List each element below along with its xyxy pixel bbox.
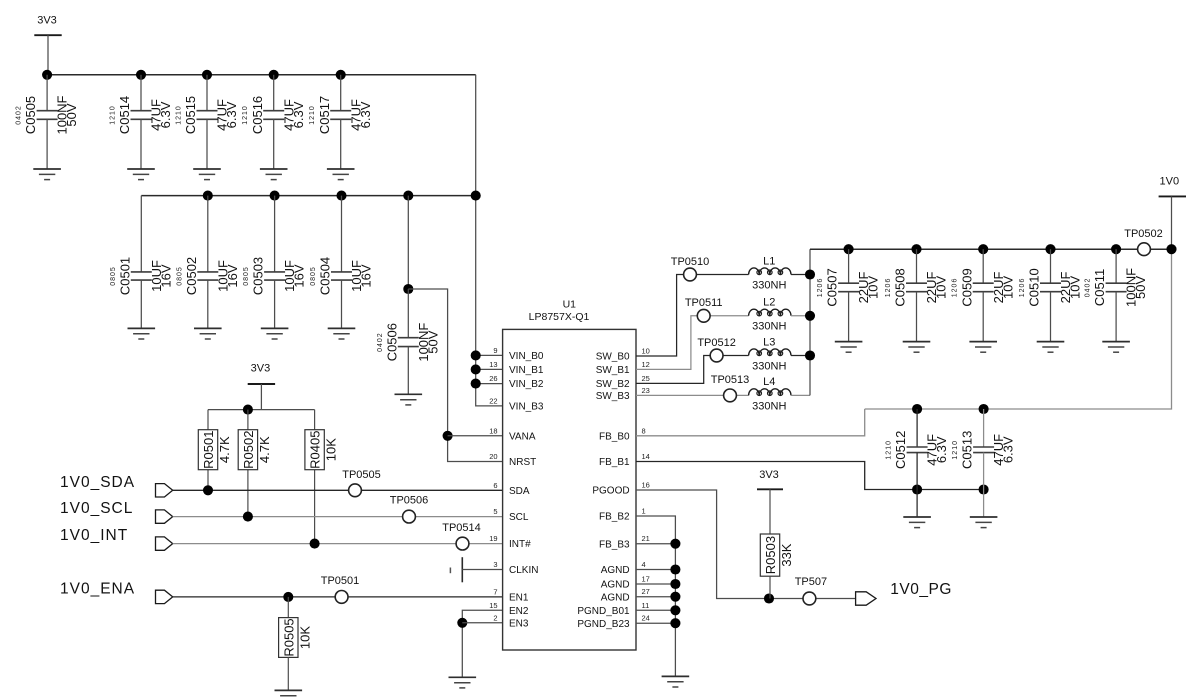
node junction VIN trunk [471,379,481,389]
wire resistor top rail [208,409,315,411]
capacitor C0501 10UF 16V [140,196,142,272]
wire inductor to output bus [791,315,810,317]
svg-text:U1: U1 [563,299,577,311]
node junction R0502 top [243,405,253,415]
svg-text:1210: 1210 [886,440,893,460]
node junction on rail 2 [203,191,213,201]
svg-text:6.3V: 6.3V [224,101,239,128]
svg-text:1V0_SCL: 1V0_SCL [60,500,133,517]
svg-text:4: 4 [642,560,646,569]
test point TP0505 [349,484,362,497]
wire C0513 ground lead [983,490,985,518]
wire SW_B1 net [636,316,749,370]
capacitor C0517 47UF 6.3V [340,75,342,111]
svg-text:16: 16 [642,481,650,490]
svg-text:INT#: INT# [509,539,531,550]
svg-text:4.7K: 4.7K [217,436,232,463]
wire 3V3 stem to resistor rail [260,384,262,410]
svg-text:5: 5 [493,507,497,516]
capacitor C0504 10UF 16V [341,196,343,272]
wire 1V0_INT [173,543,503,545]
wire SW_B3 net [636,394,749,396]
node junction on 3V3 rail [269,70,279,80]
wire EN3 stub [462,622,502,624]
svg-text:TP0511: TP0511 [685,297,723,309]
ground [128,327,156,329]
svg-text:TP0514: TP0514 [442,522,481,534]
node junction AGND/PGND bus [670,592,680,602]
capacitor C0502 10UF 16V [207,196,209,272]
node junction R0405/INT [310,539,320,549]
svg-text:1206: 1206 [952,278,959,298]
wire to VANA/NRST [408,289,502,462]
capacitor C0508 22UF 10V [916,249,918,283]
svg-text:26: 26 [489,374,497,383]
ground [969,341,997,343]
svg-text:1V0_INT: 1V0_INT [60,527,128,544]
svg-text:3V3: 3V3 [251,363,271,375]
wire rail 2 (VIN mid) [141,195,475,197]
svg-text:6.3V: 6.3V [1001,436,1016,463]
ground [33,168,61,170]
svg-text:8: 8 [642,426,646,435]
test point TP0513 [724,389,737,402]
svg-text:PGND_B01: PGND_B01 [577,606,630,617]
svg-text:10V: 10V [866,276,881,299]
wire FB_B1 net [636,462,984,490]
svg-text:12: 12 [642,360,650,369]
wire 1V0_ENA [173,596,503,598]
ground [260,168,288,170]
node junction AGND/PGND bus [670,539,680,549]
svg-text:VANA: VANA [509,431,536,442]
node junction on rail 2 [336,191,346,201]
node junction AGND/PGND bus [670,605,680,615]
wire VIN stub [476,383,503,385]
power symbol 3V3 [757,488,783,490]
svg-text:C0501: C0501 [117,257,132,295]
svg-text:AGND: AGND [601,565,630,576]
svg-text:11: 11 [642,601,650,610]
capacitor C0503 10UF 16V [274,196,276,272]
svg-text:L1: L1 [763,255,775,267]
CLKIN tie-off symbol [461,557,463,582]
svg-text:330NH: 330NH [752,360,786,372]
svg-text:4.7K: 4.7K [257,436,272,463]
wire trunk rail1 to VIN pins [476,75,503,406]
svg-text:33K: 33K [779,543,794,566]
wire R0503 top lead [769,489,771,534]
resistor R0405 10K [314,428,316,431]
svg-text:1: 1 [642,507,646,516]
svg-text:10V: 10V [1000,276,1015,299]
ground [1102,341,1130,343]
svg-text:L2: L2 [763,297,775,309]
wire inductor to output bus [791,394,810,396]
svg-text:C0503: C0503 [251,257,266,295]
svg-text:LP8757X-Q1: LP8757X-Q1 [529,311,590,323]
IC U1 LP8757X-Q1 [503,329,636,650]
node junction R0501/SDA [203,485,213,495]
node junction FB top rail [912,404,922,414]
input flag 1V0_SCL [156,510,173,523]
resistor R0505 10K [287,616,289,619]
wire R0505 bottom lead [287,657,289,690]
node junction VIN trunk [471,350,481,360]
node junction VANA [443,431,453,441]
capacitor C0506 100NF 50V [407,289,409,338]
inductor L4 330NH [749,389,791,396]
svg-text:PGOOD: PGOOD [592,486,629,497]
resistor R0502 4.7K [247,428,249,431]
test point TP0502 [1138,243,1151,256]
capacitor C0511 100NF 50V [1115,249,1117,283]
svg-text:C0509: C0509 [959,268,974,306]
node junction inductor/bus [805,350,815,360]
svg-text:VIN_B1: VIN_B1 [509,365,544,376]
inductor L2 330NH [749,309,791,316]
svg-text:R0505: R0505 [281,618,296,656]
ground [327,168,355,170]
svg-text:21: 21 [642,534,650,543]
svg-text:VIN_B0: VIN_B0 [509,351,544,362]
svg-text:SW_B1: SW_B1 [596,365,630,376]
node junction on rail 2 [270,191,280,201]
svg-text:0402: 0402 [16,105,23,125]
wire input rail VIN (top) [47,74,476,76]
svg-text:C0510: C0510 [1027,268,1042,306]
svg-text:14: 14 [642,452,650,461]
ground [449,676,477,678]
svg-text:TP507: TP507 [795,576,827,588]
svg-text:16V: 16V [225,264,240,287]
resistor R0503 33K [769,533,771,536]
svg-text:CLKIN: CLKIN [509,565,538,576]
svg-text:C0517: C0517 [317,96,332,134]
node junction C0506/VANA [403,284,413,294]
input flag 1V0_ENA [156,590,173,603]
ground [194,327,222,329]
svg-text:0805: 0805 [310,266,317,286]
svg-text:1210: 1210 [109,105,116,125]
svg-text:10K: 10K [324,438,339,461]
svg-text:1210: 1210 [242,105,249,125]
svg-text:50V: 50V [425,330,440,353]
wire 1V0_SCL [173,516,503,518]
node junction on rail 2 [403,191,413,201]
node junction on output rail [1166,244,1176,254]
node junction R0502/SCL [243,512,253,522]
wire VIN stub [476,368,503,370]
wire R0502 leads [247,410,249,430]
node junction on 3V3 rail [202,70,212,80]
ground [193,168,221,170]
wire AGND/PGND stub [636,596,675,598]
svg-text:R0502: R0502 [241,431,256,469]
svg-text:EN2: EN2 [509,606,529,617]
svg-text:C0502: C0502 [184,257,199,295]
node junction AGND/PGND bus [670,618,680,628]
svg-text:1V0: 1V0 [1160,176,1180,188]
svg-text:TP0501: TP0501 [321,575,360,587]
svg-text:1210: 1210 [175,105,182,125]
ground [395,393,423,395]
wire inductor to output bus [791,355,810,357]
svg-text:PGND_B23: PGND_B23 [577,619,630,630]
node junction on output rail [844,244,854,254]
test point TP0501 [335,591,348,604]
svg-text:TP0513: TP0513 [711,374,750,386]
svg-text:L3: L3 [763,336,775,348]
wire 3V3 to rail [47,35,49,75]
wire SW_B2 net [636,356,749,384]
svg-text:C0512: C0512 [893,431,908,469]
ground [275,689,303,691]
wire inductor to output bus [791,274,810,276]
node junction FB bottom rail [912,484,922,494]
capacitor C0514 47UF 6.3V [140,75,142,111]
test point TP0512 [710,349,723,362]
wire EN2/EN3 tie [462,610,502,677]
ground [903,341,931,343]
node junction EN3 [457,618,467,628]
power symbol 1V0 [1159,195,1186,197]
inductor L1 330NH [749,268,791,275]
svg-text:1210: 1210 [309,105,316,125]
svg-text:16V: 16V [359,264,374,287]
capacitor C0512 47UF 6.3V [916,409,918,447]
svg-text:EN1: EN1 [509,593,529,604]
svg-text:3: 3 [493,560,497,569]
svg-text:2: 2 [493,613,497,622]
svg-text:3V3: 3V3 [37,15,57,27]
wire R0501 leads [207,410,209,430]
ground [1037,341,1065,343]
wire AGND/PGND stub [636,609,675,611]
svg-text:1206: 1206 [885,278,892,298]
node junction FB bottom rail [979,484,989,494]
svg-text:R0405: R0405 [308,431,323,469]
capacitor C0509 22UF 10V [982,249,984,283]
svg-text:18: 18 [489,426,497,435]
ground [127,168,155,170]
capacitor C0507 22UF 10V [848,249,850,283]
svg-text:6.3V: 6.3V [158,101,173,128]
svg-text:AGND: AGND [601,592,630,603]
svg-text:0805: 0805 [243,266,250,286]
wire PGOOD net [636,490,856,599]
wire AGND/PGND stub [636,569,675,571]
wire output rail [810,248,1172,250]
svg-text:6: 6 [493,481,497,490]
svg-text:EN3: EN3 [509,618,529,629]
svg-text:16V: 16V [292,264,307,287]
test point TP507 [803,592,816,605]
power symbol 3V3 [248,383,275,385]
wire R0503 bottom lead [769,576,771,598]
svg-text:0805: 0805 [176,266,183,286]
svg-text:NRST: NRST [509,457,536,468]
node junction on 3V3 rail [136,70,146,80]
svg-text:TP0510: TP0510 [671,256,710,268]
svg-text:SCL: SCL [509,512,529,523]
power symbol 3V3 [34,34,61,36]
capacitor C0510 22UF 10V [1050,249,1052,283]
svg-text:1206: 1206 [817,278,824,298]
svg-text:10V: 10V [1068,276,1083,299]
svg-text:23: 23 [642,386,650,395]
wire FB_B0 net [636,409,865,436]
node junction R0505/ENA [283,592,293,602]
wire AGND/PGND stub [636,622,675,624]
svg-text:C0504: C0504 [318,257,333,295]
svg-text:15: 15 [489,601,497,610]
svg-text:27: 27 [642,587,650,596]
resistor R0501 4.7K [207,428,209,431]
svg-text:1206: 1206 [1019,278,1026,298]
wire R0405 leads [314,410,316,430]
node junction inductor/bus [805,311,815,321]
svg-text:6.3V: 6.3V [358,101,373,128]
svg-text:C0515: C0515 [183,96,198,134]
ground [328,327,356,329]
svg-text:25: 25 [642,374,650,383]
wire C0506 tap [407,196,409,289]
svg-text:330NH: 330NH [752,321,786,333]
svg-text:10V: 10V [934,276,949,299]
svg-text:10: 10 [642,347,650,356]
svg-text:C0506: C0506 [384,323,399,361]
node junction inductor/bus [805,269,815,279]
test point TP0511 [697,309,710,322]
svg-text:FB_B1: FB_B1 [599,457,630,468]
node junction on output rail [1111,244,1121,254]
svg-text:3V3: 3V3 [759,469,779,481]
capacitor C0505 100NF 50V [46,75,48,111]
node junction AGND/PGND bus [670,564,680,574]
node junction FB top rail [979,404,989,414]
node junction AGND/PGND bus [670,579,680,589]
node junction VIN trunk [471,364,481,374]
svg-text:VIN_B3: VIN_B3 [509,402,544,413]
svg-text:TP0506: TP0506 [390,495,429,507]
wire 1V0 stem [1171,196,1173,249]
svg-text:0805: 0805 [110,266,117,286]
wire 1V0_SDA [173,489,503,491]
svg-text:19: 19 [489,534,497,543]
capacitor C0515 47UF 6.3V [206,75,208,111]
svg-text:TP0502: TP0502 [1124,228,1163,240]
svg-text:0402: 0402 [1085,278,1092,298]
svg-text:C0507: C0507 [825,268,840,306]
wire AGND/PGND stub [636,583,675,585]
node junction R0503/PGOOD [764,593,774,603]
svg-text:L4: L4 [763,376,775,388]
node junction on output rail [911,244,921,254]
ground [261,327,289,329]
svg-text:SW_B3: SW_B3 [596,391,630,402]
svg-text:C0516: C0516 [250,96,265,134]
input flag 1V0_SDA [156,484,173,497]
svg-text:C0514: C0514 [117,96,132,134]
svg-text:C0513: C0513 [960,431,975,469]
svg-text:330NH: 330NH [752,279,786,291]
svg-text:VIN_B2: VIN_B2 [509,379,544,390]
node junction on rail 2 [471,191,481,201]
inductor L3 330NH [749,349,791,356]
svg-text:0402: 0402 [377,332,384,352]
svg-text:TP0512: TP0512 [697,337,736,349]
svg-text:1210: 1210 [952,440,959,460]
svg-text:50V: 50V [64,103,79,126]
svg-text:9: 9 [493,346,497,355]
svg-text:330NH: 330NH [752,400,786,412]
test point TP0514 [456,537,469,550]
svg-text:C0505: C0505 [23,96,38,134]
svg-text:17: 17 [642,575,650,584]
svg-text:C0508: C0508 [893,268,908,306]
svg-text:7: 7 [493,587,497,596]
input flag 1V0_INT [156,537,173,550]
svg-text:TP0505: TP0505 [342,469,381,481]
wire SW output bus vertical [809,249,811,395]
svg-text:R0503: R0503 [763,536,778,574]
test point TP0510 [684,268,697,281]
svg-text:C0511: C0511 [1092,269,1107,306]
svg-text:SW_B0: SW_B0 [596,352,630,363]
wire FB_B2/AGND bus [636,516,675,676]
output flag 1V0_PG [856,592,876,605]
ground [903,516,931,518]
svg-text:6.3V: 6.3V [934,436,949,463]
node junction on output rail [978,244,988,254]
svg-text:13: 13 [489,360,497,369]
wire C0512 ground lead [916,490,918,518]
wire VANA stub [448,435,503,437]
test point TP0506 [403,510,416,523]
svg-text:1V0_PG: 1V0_PG [890,581,952,598]
node junction on 3V3 rail [336,70,346,80]
ground [662,675,690,677]
svg-text:22: 22 [489,396,497,405]
svg-text:FB_B2: FB_B2 [599,512,630,523]
ground [835,341,863,343]
svg-text:FB_B3: FB_B3 [599,539,630,550]
svg-text:10K: 10K [297,626,312,649]
capacitor C0513 47UF 6.3V [983,409,985,447]
wire SW_B0 net [636,275,749,357]
svg-text:24: 24 [642,614,650,623]
svg-text:SDA: SDA [509,486,530,497]
svg-text:R0501: R0501 [201,431,216,469]
svg-text:20: 20 [489,452,497,461]
svg-text:6.3V: 6.3V [291,101,306,128]
svg-text:1V0_SDA: 1V0_SDA [60,474,135,491]
wire VIN stub [476,354,503,356]
wire 1V0 feedback drop [865,249,1172,409]
node junction on output rail [1045,244,1055,254]
svg-text:1V0_ENA: 1V0_ENA [60,581,135,598]
node junction on 3V3 rail [42,70,52,80]
svg-text:AGND: AGND [601,580,630,591]
capacitor C0516 47UF 6.3V [273,75,275,111]
wire R0505 top lead [287,597,289,618]
svg-text:16V: 16V [158,264,173,287]
wire CLKIN stub [462,569,502,571]
ground [970,516,998,518]
svg-text:SW_B2: SW_B2 [596,379,630,390]
svg-text:FB_B0: FB_B0 [599,431,630,442]
